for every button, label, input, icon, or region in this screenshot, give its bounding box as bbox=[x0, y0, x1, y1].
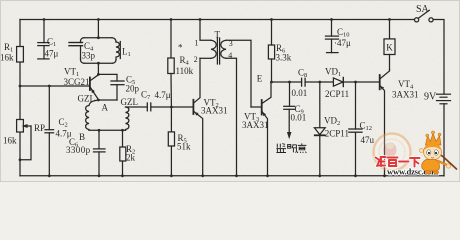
diode VD2 bbox=[319, 82, 321, 128]
capacitor C4 bbox=[69, 42, 83, 44]
node VT1 base left bbox=[19, 85, 22, 88]
inductor L1 bbox=[116, 42, 119, 60]
node C10 top rail bbox=[330, 18, 333, 21]
node R4 top rail bbox=[170, 18, 173, 21]
diode VD1 bbox=[333, 78, 343, 86]
node VT4 emitter ground bbox=[383, 174, 386, 177]
node RP wiper bbox=[19, 158, 22, 161]
wire top rail bbox=[20, 19, 414, 21]
node C2 ground bbox=[48, 174, 51, 177]
wire RP wiper bbox=[20, 126, 31, 160]
node tank bottom tap bbox=[97, 62, 100, 65]
resistor R5 bbox=[170, 107, 172, 132]
node R6 top rail bbox=[270, 18, 273, 21]
node C9 tap bbox=[288, 81, 291, 84]
wire E row to C8 bbox=[272, 81, 302, 83]
inductor GZL right bbox=[126, 107, 129, 130]
node B R2 bbox=[121, 129, 124, 132]
relay K bbox=[389, 20, 391, 39]
transistor VT3 bbox=[261, 100, 263, 115]
transformer T secondary bbox=[221, 40, 226, 58]
transistor VT4 bbox=[379, 75, 381, 89]
node A emitter bbox=[97, 99, 100, 102]
capacitor C5 bbox=[98, 74, 117, 81]
transformer T core bbox=[216, 38, 218, 64]
node C7 R4 R5 bbox=[170, 106, 173, 109]
wire VT1 emitter node A bbox=[98, 99, 117, 101]
switch SA bbox=[415, 18, 419, 22]
transistor VT2 bbox=[192, 100, 194, 114]
scan grain overlay bbox=[0, 0, 460, 182]
LC tank loop with C4 and L1 bbox=[81, 38, 117, 64]
wire C7 junction to VT2 base bbox=[171, 106, 193, 108]
wire left column bbox=[19, 20, 21, 47]
battery 9V bbox=[437, 93, 451, 95]
capacitor C9 bbox=[289, 82, 291, 106]
wire bottom rail bbox=[20, 175, 444, 177]
node VT3 emitter ground bbox=[266, 174, 269, 177]
capacitor C2 bbox=[48, 86, 50, 130]
node R5 ground bbox=[170, 174, 173, 177]
node VT1 collector bbox=[97, 73, 100, 76]
node T pin1 rail bbox=[199, 18, 202, 21]
node T pin4 ground bbox=[235, 174, 238, 177]
monitor point arrow bbox=[288, 109, 290, 132]
wire VT1 base row bbox=[20, 85, 89, 87]
paper background bbox=[0, 0, 460, 182]
watermark text weiku (fake CJK red) bbox=[376, 157, 420, 167]
node C6 ground bbox=[98, 174, 101, 177]
wire tank top tap to rail bbox=[97, 20, 99, 38]
node R2 ground bbox=[121, 174, 124, 177]
node VD2 ground bbox=[318, 174, 321, 177]
wire top rail right segment after switch bbox=[433, 20, 444, 95]
resistor R4 bbox=[170, 20, 172, 59]
node tank top rail bbox=[97, 18, 100, 21]
resistor R2 bbox=[122, 130, 124, 147]
capacitor C12 bbox=[355, 82, 357, 129]
wire B row bbox=[89, 129, 126, 131]
capacitor C10 bbox=[331, 20, 333, 37]
watermark stamp circle bbox=[374, 134, 411, 171]
node C1 top rail bbox=[43, 18, 46, 21]
capacitor C8 bbox=[301, 78, 303, 86]
node B C6 bbox=[98, 129, 101, 132]
transformer T primary bbox=[200, 20, 211, 41]
label monitor point (CJK drawn as strokes) bbox=[276, 143, 306, 153]
wire battery to bottom rail bbox=[443, 104, 445, 176]
watermark mascot bbox=[419, 131, 456, 174]
resistor R6 bbox=[271, 20, 273, 46]
node VT2 emitter ground bbox=[201, 174, 204, 177]
transistor VT1 bbox=[89, 78, 91, 91]
node VD2 tap bbox=[318, 81, 321, 84]
capacitor C6 bbox=[98, 130, 100, 149]
inductor GZL left bbox=[86, 100, 99, 130]
capacitor C7 bbox=[126, 106, 148, 108]
wire VT3 base bbox=[251, 106, 261, 108]
node C12 ground bbox=[354, 174, 357, 177]
node E R6 bbox=[270, 81, 273, 84]
node C12 tap bbox=[354, 81, 357, 84]
node C2 base row bbox=[48, 85, 51, 88]
wire tank bottom tap bbox=[97, 63, 99, 74]
resistor R1 bbox=[17, 47, 24, 63]
potentiometer RP bbox=[17, 120, 24, 133]
node K top rail bbox=[388, 18, 391, 21]
node tank top tap bbox=[97, 36, 100, 39]
capacitor C1 bbox=[43, 20, 45, 43]
